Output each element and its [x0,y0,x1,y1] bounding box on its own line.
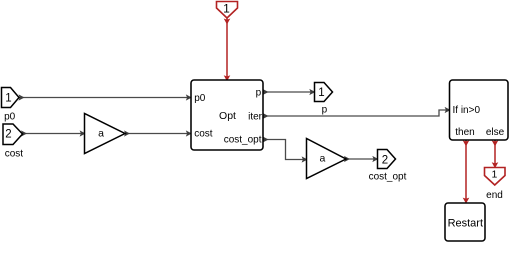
svg-text:then: then [455,127,474,138]
svg-text:a: a [319,153,325,165]
svg-text:1: 1 [223,2,230,16]
svg-text:cost_opt: cost_opt [369,171,407,182]
svg-text:else: else [486,127,505,138]
svg-text:1: 1 [318,87,324,99]
svg-text:2: 2 [382,154,388,166]
svg-text:cost_opt: cost_opt [224,135,262,146]
svg-text:2: 2 [5,129,11,141]
svg-text:iter: iter [248,112,263,123]
svg-text:p0: p0 [4,112,16,123]
svg-text:Opt: Opt [219,110,236,122]
svg-text:p: p [322,104,328,115]
svg-text:a: a [98,127,104,139]
svg-text:cost: cost [194,128,213,139]
svg-text:1: 1 [491,169,497,181]
svg-text:p: p [256,88,262,99]
svg-text:1: 1 [5,92,11,104]
svg-text:cost: cost [5,149,24,160]
svg-text:end: end [486,190,503,201]
svg-text:If in>0: If in>0 [453,105,481,116]
svg-text:Restart: Restart [448,218,483,230]
svg-text:p0: p0 [194,93,206,104]
